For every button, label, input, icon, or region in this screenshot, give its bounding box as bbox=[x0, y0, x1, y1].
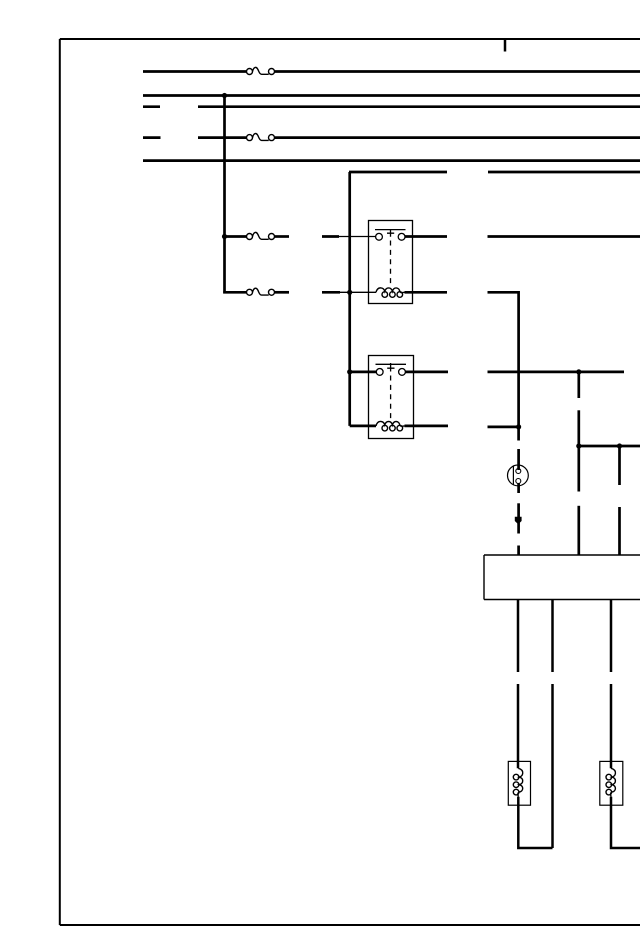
wire node A to control unit (lower) bbox=[577, 506, 580, 555]
wire bus 5 bbox=[143, 159, 640, 162]
relay K2 armature cross bbox=[387, 363, 394, 372]
wire relay K1 coil out bbox=[405, 291, 448, 294]
wire fuse row B right stub bbox=[275, 291, 289, 294]
wire bus 4 mid segment bbox=[198, 136, 247, 139]
relay K2 contact bar bbox=[376, 363, 407, 365]
wire fuse row B bbox=[223, 291, 247, 294]
wire into relay K1 coil (thin lead) bbox=[340, 291, 376, 293]
wire from L1 to ground loop bbox=[518, 797, 552, 848]
harness arrow bbox=[515, 517, 522, 524]
wire segment to control unit bbox=[517, 546, 520, 556]
wire relay K2 coil out bbox=[405, 425, 449, 428]
junction dot at bus 2 bbox=[222, 93, 227, 98]
wire node B down (upper) bbox=[618, 446, 621, 485]
wire into relay K1 coil (thick stub) bbox=[322, 291, 340, 294]
wire U1 pin 2 down (lower) bbox=[551, 684, 554, 848]
solenoid L2 coil bbox=[606, 768, 615, 797]
wire into connector C1 bbox=[517, 449, 520, 470]
junction dot K2 contact line bbox=[347, 369, 352, 374]
junction dot right bus node B bbox=[617, 443, 622, 448]
wire fuse row A right stub bbox=[275, 235, 289, 238]
wire from K2 contact node down (upper dash) bbox=[577, 372, 580, 398]
wire U1 pin 3 down (upper) bbox=[610, 600, 613, 673]
relay K2 box bbox=[369, 356, 414, 439]
relay K1 armature dashed link bbox=[390, 241, 392, 285]
vertical feed wire from bus 2 bbox=[223, 96, 226, 294]
wire node B down (lower) bbox=[618, 507, 621, 556]
wire from L2 to right bbox=[611, 797, 640, 848]
relay K1 box bbox=[369, 221, 413, 304]
connector C1 pin top bbox=[516, 469, 521, 474]
wire relay K1 contact out bbox=[405, 235, 447, 238]
fuse F4 bbox=[247, 288, 275, 295]
connector C1 pin bottom bbox=[516, 479, 521, 484]
relay K2 coil bbox=[376, 421, 405, 430]
wire bus 3 left stub bbox=[143, 105, 160, 108]
relay K2 contact terminal right bbox=[399, 369, 406, 376]
solenoid L1 coil bbox=[513, 768, 522, 797]
vertical wire from bus 6 to relay K2 bbox=[348, 172, 351, 426]
wire bus 3 main segment bbox=[198, 105, 640, 108]
wire segment with harness arrow bbox=[517, 503, 520, 533]
terminal tick T1 on top border bbox=[504, 39, 507, 52]
fuse F2 bbox=[247, 134, 275, 141]
relay K1 contact terminal left bbox=[376, 233, 383, 240]
junction dot K1 coil line bbox=[347, 290, 352, 295]
wire relay K2 coil right segment bbox=[488, 426, 519, 429]
control unit box U1 bbox=[484, 555, 640, 600]
junction dot coil node bbox=[516, 424, 521, 429]
relay K1 armature cross bbox=[387, 230, 394, 237]
junction dot fuse row A bbox=[222, 234, 227, 239]
relay K1 coil bbox=[376, 288, 405, 297]
wire from K2 contact node down (lower dash) bbox=[577, 410, 580, 446]
wire horizontal right bus bbox=[579, 445, 640, 448]
fuse F1 bbox=[247, 67, 275, 74]
wire relay K1 coil right segment with corner down bbox=[488, 292, 519, 427]
wire relay K2 contact out bbox=[405, 371, 448, 374]
wire bus 1 right segment bbox=[275, 70, 640, 73]
wire bus 6 right segment bbox=[488, 171, 640, 174]
wire bus 1 left segment bbox=[143, 70, 247, 73]
wire node A to control unit (upper) bbox=[577, 446, 580, 492]
wire bus 2 bbox=[143, 94, 640, 97]
fuse F3 bbox=[247, 232, 275, 239]
relay K1 contact terminal right bbox=[398, 233, 405, 240]
inline connector C1 body bbox=[508, 465, 529, 486]
relay K2 armature dashed link bbox=[390, 376, 392, 420]
wire into relay K2 coil (elbow) bbox=[350, 425, 376, 428]
wire U1 pin 2 down (upper) bbox=[551, 600, 554, 673]
relay K1 contact bar bbox=[375, 229, 406, 231]
wire relay K2 contact right segment bbox=[488, 371, 625, 374]
wire fuse row A bbox=[225, 235, 248, 238]
wire U1 pin 1 down (upper) bbox=[517, 600, 520, 673]
wire stub below coil node bbox=[517, 427, 520, 441]
wire out of connector C1 bbox=[517, 484, 520, 494]
wire relay K1 contact right segment bbox=[488, 235, 640, 238]
wire into relay K1 contact (thin lead) bbox=[339, 236, 376, 238]
junction dot K2 contact right bbox=[576, 369, 581, 374]
wire into relay K1 contact (thick stub) bbox=[322, 235, 339, 238]
relay K2 contact terminal left bbox=[376, 369, 383, 376]
wire into relay K2 contact bbox=[350, 371, 376, 374]
connector C1 chord bbox=[512, 466, 514, 485]
solenoid L1 box bbox=[508, 761, 530, 805]
wire bus 6 left segment bbox=[349, 171, 447, 174]
wire U1 pin 3 down (lower) bbox=[610, 684, 613, 768]
wire U1 pin 1 down (lower) bbox=[517, 684, 520, 768]
solenoid L2 box bbox=[600, 761, 623, 805]
junction dot right bus node A bbox=[576, 443, 581, 448]
wire bus 4 right segment bbox=[275, 136, 640, 139]
wire bus 4 left stub bbox=[143, 136, 161, 139]
